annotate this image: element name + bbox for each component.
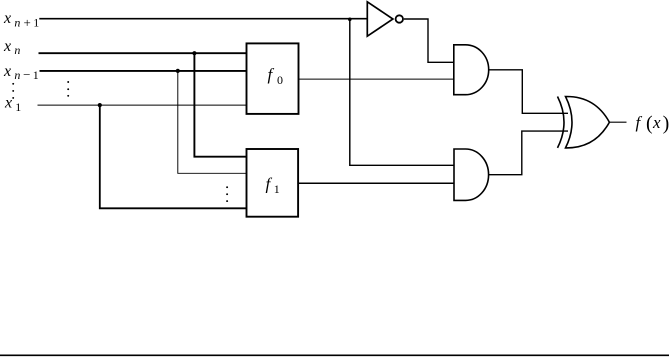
wire f1 output <box>298 182 454 184</box>
svg-text:0: 0 <box>277 73 283 87</box>
svg-text:n: n <box>14 68 20 82</box>
vdots between x_{n-1} and x_1 labels <box>12 83 14 99</box>
input label x_n <box>3 38 20 57</box>
NOT gate U1 bubble <box>396 15 403 22</box>
input label x_{n-1} <box>3 63 39 82</box>
svg-text:x: x <box>3 63 11 80</box>
wire x_1 branch down to f1 <box>100 105 247 208</box>
wire AND1 output to XOR <box>489 70 568 114</box>
wire XOR output <box>609 121 626 123</box>
vdots on input bus <box>67 81 69 97</box>
XOR gate back arc <box>558 97 565 148</box>
svg-text:+: + <box>24 15 31 30</box>
wire x_n <box>39 52 247 54</box>
wire x_{n+1} branch down to AND2 <box>350 19 454 166</box>
XOR gate body <box>566 96 610 147</box>
svg-text:1: 1 <box>33 68 39 82</box>
svg-text:x: x <box>652 113 661 132</box>
vdots before f1 inputs <box>226 186 228 202</box>
svg-text:1: 1 <box>274 182 280 196</box>
wire x_1 <box>38 104 247 106</box>
label f_0 <box>268 65 284 87</box>
output label f(x) <box>636 113 670 135</box>
svg-text:1: 1 <box>33 16 39 30</box>
svg-text:n: n <box>14 16 20 30</box>
input label x_{n+1} <box>3 10 39 30</box>
wire x_{n-1} <box>40 70 247 72</box>
svg-text:x: x <box>3 10 11 27</box>
input label x_1 <box>4 95 21 115</box>
NOT gate U1 triangle <box>367 2 393 36</box>
svg-text:f: f <box>636 113 643 132</box>
wire AND2 output to XOR <box>489 131 568 175</box>
wire x_{n-1} branch down to f1 <box>178 71 247 173</box>
junction on x_{n+1} net <box>348 18 352 22</box>
wire x_n branch down to f1 <box>194 53 246 157</box>
wire NOT output to AND1 <box>404 19 454 62</box>
svg-text:x: x <box>4 95 12 112</box>
svg-text:x: x <box>3 38 11 55</box>
box f1 <box>247 149 299 217</box>
wire f0 output <box>299 78 454 80</box>
svg-text:n: n <box>14 43 20 57</box>
AND gate A2 (bottom) <box>454 149 489 200</box>
box f0 <box>247 43 299 114</box>
svg-text:−: − <box>23 67 30 82</box>
svg-text:): ) <box>663 113 670 135</box>
svg-text:1: 1 <box>15 100 21 114</box>
junction on x_{n-1} net <box>176 69 180 73</box>
junction on x_1 net <box>98 103 102 107</box>
junction on x_n net <box>192 51 196 55</box>
wire x_{n+1} <box>39 18 368 20</box>
label f_1 <box>266 175 280 196</box>
AND gate A1 (top) <box>454 45 489 95</box>
svg-text:(: ( <box>646 113 653 135</box>
bottom rule <box>0 354 669 356</box>
